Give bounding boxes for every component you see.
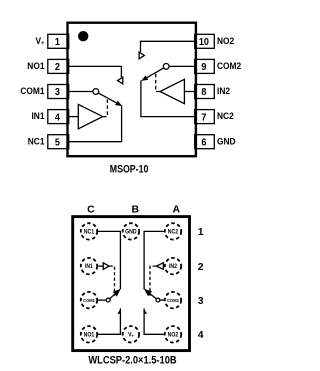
svg-text:1: 1 xyxy=(198,227,204,238)
svg-text:9: 9 xyxy=(201,62,207,74)
pin digits xyxy=(55,37,209,149)
wire NO1 ball to up arrow xyxy=(97,308,120,334)
svg-text:COM2: COM2 xyxy=(217,61,241,71)
wire NC1 riser to pin5 xyxy=(68,106,122,142)
svg-text:V+: V+ xyxy=(128,332,134,338)
wire IN2 pin8 to buffer xyxy=(184,91,196,93)
svg-text:A: A xyxy=(173,204,181,215)
pin 1 marker dot xyxy=(78,31,88,41)
wire NC1 ball to riser xyxy=(97,231,120,289)
wire NO2 ball to up arrow xyxy=(144,308,165,334)
wire COM1 ball to pivot xyxy=(97,299,106,301)
buffer 1 triangle (wlcsp) xyxy=(103,263,109,270)
buffer U1B triangle xyxy=(160,79,184,103)
buffer 2 triangle (wlcsp) xyxy=(156,263,163,270)
ball A2 IN2 xyxy=(165,258,181,274)
wire NO1 pin2 to open contact xyxy=(68,66,122,77)
dashed control line switch 2 xyxy=(156,73,160,92)
svg-text:3: 3 xyxy=(55,87,61,99)
svg-text:NC2: NC2 xyxy=(217,111,234,121)
svg-text:8: 8 xyxy=(201,87,207,99)
pivot circle switch1 (wlcsp) xyxy=(106,298,110,302)
buffer U1A triangle xyxy=(78,104,102,128)
svg-text:NC1: NC1 xyxy=(28,136,45,146)
pin 9 box xyxy=(195,59,215,73)
wire NO2 pin10 to open contact xyxy=(141,41,196,52)
switch arm 2 (wlcsp) xyxy=(148,292,157,299)
wire IN2 ball to buffer xyxy=(163,265,165,267)
svg-text:1: 1 xyxy=(55,37,61,49)
svg-text:4: 4 xyxy=(198,330,204,341)
svg-text:MSOP-10: MSOP-10 xyxy=(110,164,149,176)
pivot circle switch2 (wlcsp) xyxy=(156,298,160,302)
pin 2 box xyxy=(48,59,69,73)
pin 6 box xyxy=(195,135,215,149)
svg-text:IN2: IN2 xyxy=(169,264,177,270)
pin 4 box xyxy=(48,110,69,124)
wire NC2 riser to pin7 xyxy=(141,80,196,116)
wire NC2 ball to riser xyxy=(144,231,165,289)
switch arm 1 xyxy=(98,93,117,104)
ball A1 NC2 xyxy=(165,223,181,239)
wire COM2 ball to pivot xyxy=(160,299,165,301)
svg-text:2: 2 xyxy=(198,262,204,273)
ball C4 NO1 xyxy=(81,326,97,342)
dashed control 1 (wlcsp) xyxy=(110,266,115,296)
open contact NO1 xyxy=(118,77,123,84)
svg-text:GND: GND xyxy=(217,136,236,146)
half arrow NO2 (wlcsp) xyxy=(144,308,148,314)
pin labels left xyxy=(20,36,45,147)
ball C2 IN1 xyxy=(81,258,97,274)
ball B4 V+ xyxy=(123,326,139,342)
svg-text:10: 10 xyxy=(199,37,209,49)
wire COM2 pin9 to pivot xyxy=(169,65,196,67)
wire IN1 pin4 to buffer xyxy=(68,116,79,118)
filled contact NC1 (wlcsp) xyxy=(113,289,121,297)
svg-text:NO1: NO1 xyxy=(84,332,95,338)
pin 7 box xyxy=(195,110,215,124)
svg-text:7: 7 xyxy=(201,112,206,124)
ball C1 NC1 xyxy=(81,223,97,239)
pin 3 box xyxy=(48,85,69,99)
open contact NO2 xyxy=(139,52,144,59)
svg-text:WLCSP-2.0×1.5-10B: WLCSP-2.0×1.5-10B xyxy=(88,355,176,367)
svg-text:NC1: NC1 xyxy=(84,229,94,235)
svg-text:COM1: COM1 xyxy=(20,86,44,96)
filled contact NC2 (wlcsp) xyxy=(144,289,152,296)
wire IN1 ball to buffer xyxy=(97,265,103,267)
svg-text:C: C xyxy=(87,204,95,215)
ball B1 GND xyxy=(123,223,139,239)
svg-text:COM2: COM2 xyxy=(167,297,179,302)
svg-text:NO1: NO1 xyxy=(27,61,44,71)
svg-text:NO2: NO2 xyxy=(168,332,179,338)
pivot circle switch 2 xyxy=(163,64,169,70)
filled contact NC2 xyxy=(141,75,148,81)
svg-text:4: 4 xyxy=(55,112,61,124)
svg-text:IN1: IN1 xyxy=(31,111,44,121)
svg-text:GND: GND xyxy=(125,229,137,235)
svg-text:6: 6 xyxy=(201,137,207,149)
switch arm 2 xyxy=(146,68,164,79)
pin 10 box xyxy=(195,34,215,48)
dashed control line switch 1 xyxy=(103,98,107,117)
svg-text:NO2: NO2 xyxy=(217,36,234,46)
pin 1 box xyxy=(48,34,69,48)
ball C3 COM1 xyxy=(81,292,97,308)
dashed control 2 (wlcsp) xyxy=(150,266,156,296)
ball A3 COM2 xyxy=(165,292,181,308)
svg-text:5: 5 xyxy=(55,137,61,149)
package body WLCSP outline xyxy=(73,217,190,351)
svg-text:2: 2 xyxy=(55,62,60,74)
switch arm 1 (wlcsp) xyxy=(110,292,117,299)
ball A4 NO2 xyxy=(165,326,181,342)
half arrow NO1 (wlcsp) xyxy=(117,308,121,314)
pin labels right xyxy=(217,36,241,147)
package body U1 MSOP-10 xyxy=(68,23,196,157)
pin 8 box xyxy=(195,85,215,99)
svg-text:IN2: IN2 xyxy=(217,86,230,96)
filled contact NC1 xyxy=(115,101,122,107)
svg-text:3: 3 xyxy=(198,296,204,307)
pivot circle switch 1 xyxy=(93,89,99,95)
svg-text:NC2: NC2 xyxy=(168,229,178,235)
pin 5 box xyxy=(48,135,69,149)
svg-text:COM1: COM1 xyxy=(83,297,95,302)
svg-text:IN1: IN1 xyxy=(85,264,93,270)
wire COM1 pin3 to pivot xyxy=(68,91,93,93)
svg-text:B: B xyxy=(131,204,139,215)
